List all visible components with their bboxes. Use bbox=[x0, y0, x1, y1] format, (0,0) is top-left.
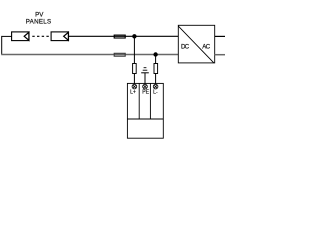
SPD module divider right bbox=[149, 83, 151, 119]
SPD module divider left bbox=[138, 83, 140, 119]
wire branch L+ down to SPD bbox=[133, 36, 135, 84]
wire branch L- down to SPD bbox=[155, 55, 157, 85]
terminal PE bbox=[143, 84, 148, 89]
wire AC output top bbox=[215, 35, 225, 37]
fuse F1 top bbox=[114, 35, 125, 38]
svg-text:AC: AC bbox=[202, 44, 210, 51]
svg-text:L+: L+ bbox=[130, 90, 136, 96]
wire AC output bottom bbox=[215, 54, 225, 56]
node junction J1 on L+ bbox=[132, 34, 136, 38]
fuse F4 on L- branch bbox=[154, 64, 158, 74]
PV panel 2 bbox=[51, 32, 68, 41]
svg-text:PE: PE bbox=[142, 90, 149, 96]
terminal L- bbox=[153, 84, 158, 89]
svg-text:L-: L- bbox=[153, 90, 158, 96]
svg-text:DC: DC bbox=[181, 44, 190, 51]
terminal L+ bbox=[132, 84, 137, 89]
SPD U1 box bbox=[127, 83, 163, 138]
fuse F3 on L+ branch bbox=[133, 64, 137, 74]
fuse F2 bottom bbox=[114, 53, 125, 56]
wire top L+ run from PV2 to inverter bbox=[69, 35, 179, 37]
wire bottom L- run bbox=[1, 54, 178, 56]
wire left riser bbox=[1, 36, 3, 55]
inverter U2 box bbox=[178, 25, 214, 63]
SPD horizontal divider bbox=[127, 118, 163, 120]
wire dashed link between PV panels bbox=[32, 35, 51, 37]
wire left stub from panel PV1 to left riser bbox=[2, 35, 12, 37]
PV panel 1 bbox=[12, 32, 29, 41]
inverter diagonal bbox=[178, 26, 214, 63]
svg-text:PANELS: PANELS bbox=[26, 18, 52, 25]
node junction J2 on L- bbox=[153, 52, 157, 56]
ground symbol bbox=[141, 68, 149, 85]
